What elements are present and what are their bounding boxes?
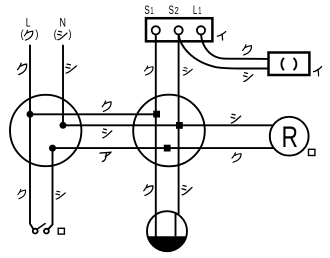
- outlet blade line right: [176, 213, 179, 236]
- wire3 red/black: dot3 to lamp R: [53, 147, 274, 149]
- junction square sq3: [164, 145, 171, 152]
- label ク S1 wire: [144, 66, 153, 75]
- terminal S1: [152, 26, 160, 34]
- wire L vertical: [30, 45, 34, 230]
- label シ curve: [243, 73, 252, 82]
- svg-text:): ): [35, 29, 38, 41]
- label ア wire3: [100, 152, 111, 161]
- svg-text:L: L: [193, 3, 198, 17]
- wire switch return vertical: [48, 148, 52, 229]
- label イ timeswitch: [217, 32, 225, 40]
- label ク wire1: [102, 101, 111, 111]
- junction square sq1: [153, 111, 160, 118]
- outlet bottom fill: [148, 236, 187, 251]
- rosette left paren: [281, 58, 284, 70]
- wire S2 to ceiling (white curve): [179, 35, 269, 69]
- label シ lamp upper wire: [231, 114, 241, 123]
- switch RO terminal 2: [44, 229, 49, 234]
- ceiling rosette box: [269, 53, 310, 76]
- rosette right paren: [294, 58, 297, 70]
- junction box A (left circle): [10, 95, 81, 166]
- label シ S2 wire: [183, 68, 192, 75]
- svg-text:L: L: [26, 16, 31, 30]
- svg-text:N: N: [59, 16, 66, 30]
- label RO (square) for switch: [58, 228, 64, 234]
- node dot1 (black to S1): [27, 111, 34, 118]
- switch RO terminal 1: [33, 229, 38, 234]
- label シ wire2: [102, 129, 111, 138]
- label ク lamp lower wire: [232, 153, 241, 163]
- wire L1 to ceiling (black curve): [201, 35, 269, 59]
- label ク curve: [243, 45, 252, 55]
- label ク L wire: [18, 63, 27, 74]
- svg-text:S: S: [144, 3, 149, 17]
- lamp receptacle R: [270, 117, 309, 156]
- svg-text:1: 1: [150, 6, 153, 17]
- terminal S2: [175, 26, 183, 34]
- label ク switch black: [18, 189, 26, 198]
- terminal L1: [197, 26, 205, 34]
- junction square sq2: [176, 122, 183, 129]
- wire1 black: dot1 to S1: [30, 113, 157, 115]
- outlet (receptacle) circle: [147, 211, 187, 251]
- node dot2 (white): [60, 122, 67, 129]
- wire S1 vertical down to outlet: [155, 35, 157, 237]
- label シ N wire: [66, 64, 76, 73]
- label シ outlet right wire: [182, 186, 192, 195]
- timeswitch terminal block: [146, 18, 212, 41]
- junction box B (right circle): [133, 95, 205, 167]
- svg-text:S: S: [169, 3, 174, 17]
- svg-text:R: R: [281, 121, 298, 154]
- svg-text:(: (: [54, 29, 57, 41]
- wire S2 vertical down: [178, 35, 180, 215]
- svg-text:): ): [68, 29, 71, 41]
- wire2 white: dot2 to lamp R: [63, 124, 273, 126]
- svg-text:2: 2: [174, 6, 178, 17]
- label シ switch return: [56, 191, 65, 199]
- label イ rosette: [314, 67, 322, 76]
- label ク outlet left wire: [144, 185, 153, 196]
- node dot3 (switch return): [49, 145, 56, 152]
- switch RO lever: [37, 223, 46, 229]
- svg-text:1: 1: [198, 6, 201, 17]
- svg-text:(: (: [21, 29, 24, 41]
- label RO (square) for lamp: [309, 149, 315, 155]
- wire N vertical: [62, 45, 64, 126]
